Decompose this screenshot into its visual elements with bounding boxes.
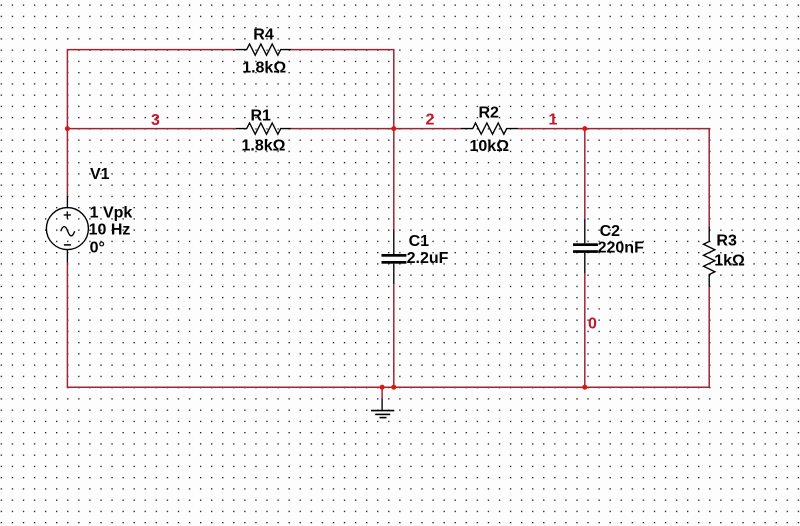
svg-text:10kΩ: 10kΩ (470, 138, 510, 155)
wire net 2 segment R1 to R2 (291, 128, 461, 130)
svg-text:2.2uF: 2.2uF (407, 250, 449, 267)
resistor R4 (236, 26, 291, 76)
junction dot net2 (391, 126, 396, 131)
svg-text:R4: R4 (253, 26, 274, 43)
junction dot ground rail C1 (391, 385, 396, 390)
svg-text:C1: C1 (409, 233, 430, 250)
svg-text:1.8kΩ: 1.8kΩ (242, 60, 286, 77)
junction dot ground rail C2 (582, 385, 587, 390)
svg-text:1 Vpk: 1 Vpk (90, 204, 133, 221)
svg-text:R1: R1 (251, 107, 272, 124)
AC source V1 (46, 166, 132, 262)
capacitor C2 (573, 219, 644, 273)
svg-text:0°: 0° (90, 240, 105, 257)
svg-text:1.8kΩ: 1.8kΩ (242, 138, 286, 155)
junction dot ground rail left (380, 385, 385, 390)
svg-text:1: 1 (549, 112, 558, 129)
svg-text:0: 0 (588, 316, 597, 333)
wire V1 bottom to ground rail (67, 262, 709, 387)
svg-text:V1: V1 (90, 166, 110, 183)
wire ground stub (381, 387, 383, 398)
junction dot net1 (582, 126, 587, 131)
resistor R2 (461, 104, 518, 155)
capacitor C1 (382, 230, 449, 285)
wire top branch left segment (R4 net) (67, 50, 236, 196)
svg-text:220nF: 220nF (598, 240, 644, 257)
wire top branch right segment (291, 50, 394, 129)
svg-text:3: 3 (151, 112, 160, 129)
svg-text:2: 2 (426, 112, 435, 129)
wire C1 branch top (393, 129, 395, 230)
svg-text:1kΩ: 1kΩ (714, 252, 745, 269)
wire net 1 segment R2 to right corner (518, 129, 709, 227)
ground (371, 399, 394, 418)
svg-text:10 Hz: 10 Hz (89, 222, 131, 239)
svg-text:R3: R3 (716, 233, 737, 250)
wire C2 branch bottom (584, 273, 586, 387)
svg-text:R2: R2 (479, 104, 500, 121)
resistor R3 (704, 226, 745, 286)
wire main horizontal net 3 segment (67, 128, 236, 130)
wire C2 branch top (584, 129, 586, 219)
wire C1 branch bottom (393, 284, 395, 387)
junction dot net3 left (65, 126, 70, 131)
svg-text:C2: C2 (600, 223, 621, 240)
resistor R1 (236, 107, 291, 154)
